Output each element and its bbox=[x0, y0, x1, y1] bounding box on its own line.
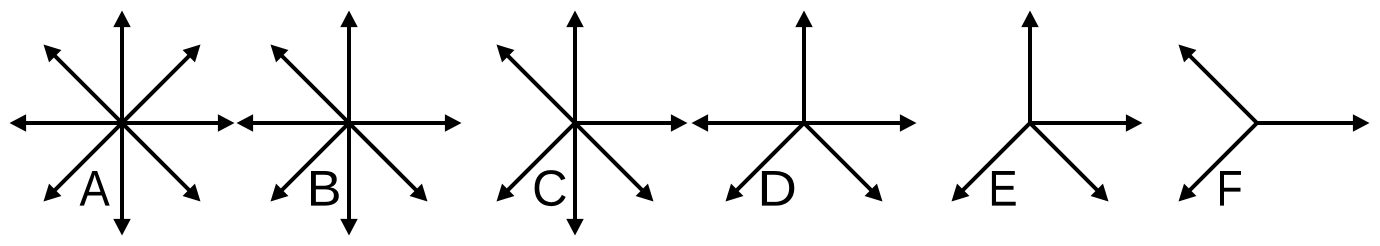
arrowhead D-W bbox=[692, 114, 709, 132]
arrowhead B-E bbox=[445, 114, 462, 132]
arrow C-SW shaft wire bbox=[506, 123, 575, 192]
arrow A-N shaft wire bbox=[120, 24, 124, 123]
arrowhead D-SE bbox=[865, 184, 883, 202]
arrow B-W shaft wire bbox=[250, 121, 349, 125]
arrow B-NW shaft wire bbox=[280, 54, 349, 123]
figure F: 3-arrow star bbox=[1179, 45, 1370, 202]
arrow A-NW shaft wire bbox=[53, 54, 122, 123]
arrowhead A-NE bbox=[183, 45, 201, 63]
arrowhead A-NW bbox=[44, 45, 62, 63]
arrowhead E-N bbox=[1021, 11, 1039, 28]
arrowhead F-NW bbox=[1179, 45, 1197, 63]
arrow E-N shaft wire bbox=[1028, 24, 1032, 123]
arrow E-SE shaft wire bbox=[1030, 123, 1099, 192]
arrow E-SW shaft wire bbox=[961, 123, 1030, 192]
arrow F-SW shaft wire bbox=[1188, 123, 1257, 192]
arrowhead A-N bbox=[113, 11, 131, 28]
arrowhead A-SW bbox=[44, 184, 62, 202]
arrow E-E shaft wire bbox=[1030, 121, 1129, 125]
arrow A-NE shaft wire bbox=[122, 54, 191, 123]
arrowhead B-W bbox=[237, 114, 254, 132]
arrowhead D-SW bbox=[726, 184, 744, 202]
arrowhead B-NW bbox=[271, 45, 289, 63]
figure B: 7-arrow star bbox=[237, 11, 462, 236]
arrow A-S shaft wire bbox=[120, 123, 124, 222]
label F bbox=[1220, 171, 1241, 206]
arrow C-E shaft wire bbox=[575, 121, 674, 125]
arrow D-E shaft wire bbox=[804, 121, 903, 125]
label D bbox=[762, 171, 794, 206]
arrow C-S shaft wire bbox=[573, 123, 577, 222]
figure A: 8-arrow star bbox=[10, 11, 235, 236]
arrow F-E shaft wire bbox=[1257, 121, 1356, 125]
figure D: 5-arrow star bbox=[692, 11, 917, 202]
arrowhead C-N bbox=[566, 11, 584, 28]
figure C: 6-arrow star bbox=[497, 11, 688, 236]
arrow B-SW shaft wire bbox=[280, 123, 349, 192]
label B bbox=[311, 171, 339, 206]
arrowhead C-SW bbox=[497, 184, 515, 202]
arrowhead B-SE bbox=[410, 184, 428, 202]
arrow B-SE shaft wire bbox=[349, 123, 418, 192]
arrow A-E shaft wire bbox=[122, 121, 221, 125]
arrowhead D-N bbox=[795, 11, 813, 28]
arrowhead C-NW bbox=[497, 45, 515, 63]
arrow A-SW shaft wire bbox=[53, 123, 122, 192]
arrowhead A-S bbox=[113, 219, 131, 236]
arrow A-W shaft wire bbox=[23, 121, 122, 125]
arrow F-NW shaft wire bbox=[1188, 54, 1257, 123]
arrowhead A-E bbox=[218, 114, 235, 132]
arrowhead B-SW bbox=[271, 184, 289, 202]
arrowhead C-S bbox=[566, 219, 584, 236]
arrowhead F-SW bbox=[1179, 184, 1197, 202]
figure E: 4-arrow star bbox=[952, 11, 1143, 202]
arrow B-S shaft wire bbox=[347, 123, 351, 222]
arrowhead D-E bbox=[900, 114, 917, 132]
label C bbox=[535, 170, 566, 206]
label A bbox=[80, 171, 110, 206]
arrowhead A-W bbox=[10, 114, 27, 132]
arrow B-N shaft wire bbox=[347, 24, 351, 123]
arrow B-E shaft wire bbox=[349, 121, 448, 125]
arrowhead E-SW bbox=[952, 184, 970, 202]
arrow A-SE shaft wire bbox=[122, 123, 191, 192]
arrow C-NW shaft wire bbox=[506, 54, 575, 123]
arrow D-W shaft wire bbox=[705, 121, 804, 125]
arrowhead C-E bbox=[671, 114, 688, 132]
arrow C-SE shaft wire bbox=[575, 123, 644, 192]
label E bbox=[992, 171, 1016, 206]
arrow D-SE shaft wire bbox=[804, 123, 873, 192]
arrowhead F-E bbox=[1353, 114, 1370, 132]
arrowhead E-E bbox=[1126, 114, 1143, 132]
arrowhead E-SE bbox=[1091, 184, 1109, 202]
arrowhead C-SE bbox=[636, 184, 654, 202]
arrowhead A-SE bbox=[183, 184, 201, 202]
arrowhead B-S bbox=[340, 219, 358, 236]
arrowhead B-N bbox=[340, 11, 358, 28]
arrow D-N shaft wire bbox=[802, 24, 806, 123]
arrow C-N shaft wire bbox=[573, 24, 577, 123]
arrow D-SW shaft wire bbox=[735, 123, 804, 192]
